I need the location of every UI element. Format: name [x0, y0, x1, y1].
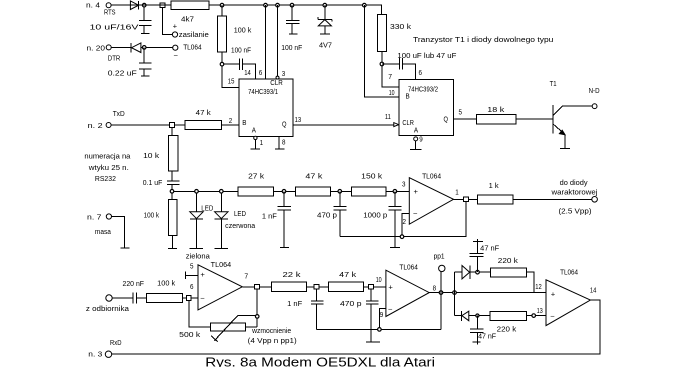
- svg-text:waraktorowej: waraktorowej: [550, 190, 598, 197]
- svg-text:5: 5: [190, 264, 194, 271]
- svg-text:TxD: TxD: [113, 111, 125, 118]
- wire input to cap: [112, 297, 133, 299]
- ground 1000p: [390, 247, 400, 249]
- svg-text:74HC393/1: 74HC393/1: [248, 89, 278, 96]
- svg-text:z odbiornika: z odbiornika: [86, 306, 129, 313]
- wire rail to chip2 pin 10: [364, 5, 399, 97]
- wire top supply rail: [112, 5, 382, 14]
- svg-text:0.22 uF: 0.22 uF: [108, 71, 137, 78]
- svg-text:Tranzystor T1 i diody dowolneg: Tranzystor T1 i diody dowolnego typu: [413, 37, 554, 44]
- svg-text:−: −: [550, 314, 555, 321]
- svg-text:2: 2: [403, 219, 407, 226]
- wire U3 output to U4 plus: [429, 292, 546, 294]
- svg-text:100 k: 100 k: [234, 28, 252, 35]
- svg-text:Q: Q: [444, 117, 449, 124]
- svg-text:numeracja na: numeracja na: [84, 154, 130, 161]
- svg-text:100 k: 100 k: [157, 280, 176, 287]
- junction at U4 minus: [532, 314, 536, 318]
- supply stub 47nF top: [473, 241, 483, 243]
- svg-text:TL064: TL064: [560, 270, 578, 277]
- IC U3 74HC393/2: [399, 79, 454, 135]
- wire U1 minus stub: [402, 213, 409, 236]
- resistor 47 k (demod): [328, 282, 363, 291]
- svg-text:+: +: [200, 272, 205, 279]
- svg-text:wtyku 25 n.: wtyku 25 n.: [88, 165, 129, 172]
- svg-text:A: A: [252, 128, 256, 135]
- svg-text:6: 6: [190, 284, 194, 291]
- diode D4 (bottom detector): [461, 311, 463, 321]
- ground 470p demod: [366, 341, 380, 343]
- pin 8 ground: [275, 136, 285, 149]
- capacitor 0.22 uF: [139, 47, 151, 75]
- op-amp U1 TL064: [409, 178, 453, 225]
- svg-text:do diody: do diody: [560, 180, 589, 187]
- svg-text:zasilanie: zasilanie: [179, 32, 209, 39]
- junction top detector node: [476, 270, 480, 274]
- diode D1 (RTS): [130, 1, 138, 10]
- ground LED czerwona: [215, 247, 228, 249]
- ground 1nF: [280, 247, 289, 249]
- junction pot wiper: [255, 315, 259, 319]
- svg-text:+: +: [414, 189, 419, 196]
- svg-text:22 k: 22 k: [283, 272, 302, 279]
- svg-text:1 k: 1 k: [489, 183, 500, 190]
- svg-text:2: 2: [229, 118, 233, 125]
- svg-text:CLR: CLR: [270, 80, 283, 87]
- LED zielona: [196, 191, 198, 212]
- svg-text:(4 Vpp n pp1): (4 Vpp n pp1): [248, 338, 297, 345]
- svg-text:−: −: [388, 307, 393, 314]
- junction after 27k: [282, 190, 286, 194]
- wire detector branch vertical: [454, 272, 456, 315]
- svg-text:DTR: DTR: [108, 56, 121, 63]
- capacitor 0.1 uF: [167, 171, 179, 192]
- svg-text:150 k: 150 k: [361, 173, 383, 180]
- resistor 18 k: [477, 115, 516, 124]
- wire Q pin5 to 18k: [453, 118, 552, 120]
- svg-text:3: 3: [282, 71, 286, 78]
- capacitor 100 nF (decoupling): [286, 5, 300, 34]
- resistor 330 k: [378, 15, 387, 52]
- svg-text:6: 6: [259, 70, 263, 77]
- node square junction after 22k: [314, 284, 319, 289]
- junction rail at 100k: [220, 3, 224, 7]
- resistor 100 k (to ground): [171, 191, 173, 199]
- resistor 150 k: [351, 187, 385, 196]
- ground stub 100nF: [289, 33, 298, 35]
- wire node to chip2 pin 7: [382, 64, 399, 87]
- svg-text:18 k: 18 k: [487, 107, 505, 114]
- svg-text:n. 7: n. 7: [87, 215, 102, 222]
- resistor 220 k (top): [490, 268, 526, 277]
- svg-text:+: +: [551, 291, 556, 298]
- svg-text:TL064: TL064: [183, 44, 202, 51]
- terminal n.3 RxD: [105, 351, 111, 357]
- wire U3 output feedback drop: [440, 293, 442, 330]
- junction bottom detector node: [476, 314, 479, 317]
- resistor 100 k (input): [146, 294, 182, 303]
- node square junction after 47k: [369, 284, 374, 289]
- junction node RTS: [142, 3, 146, 7]
- svg-text:100 k: 100 k: [144, 212, 160, 219]
- node square junction U2 output: [255, 284, 260, 289]
- svg-text:470 p: 470 p: [340, 301, 362, 308]
- svg-text:RxD: RxD: [110, 340, 122, 347]
- ground LED zielona: [190, 247, 204, 249]
- wire diode to 220k top: [470, 271, 490, 273]
- svg-text:masa: masa: [95, 229, 111, 236]
- wire U3 feedback: [317, 328, 442, 330]
- ground stub zener: [320, 33, 330, 35]
- wire U2 feedback loop: [189, 287, 257, 327]
- svg-text:74HC393/2: 74HC393/2: [408, 86, 438, 93]
- svg-text:−: −: [200, 296, 205, 303]
- resistor 10 k: [171, 127, 173, 135]
- svg-text:47 k: 47 k: [305, 173, 323, 180]
- junction U3 output: [439, 291, 443, 295]
- svg-text:5: 5: [459, 109, 463, 116]
- svg-text:TL064: TL064: [211, 262, 232, 269]
- wire to +zasilanie terminal: [163, 8, 173, 35]
- svg-text:7: 7: [244, 274, 248, 281]
- op-amp U3 TL064: [386, 270, 429, 316]
- svg-text:n. 2: n. 2: [88, 123, 103, 130]
- terminal do diody waraktorowej: [592, 197, 598, 203]
- svg-text:8: 8: [282, 140, 286, 147]
- wire 47k to U3 plus: [363, 286, 386, 288]
- wire 220k bottom to minus: [527, 315, 546, 317]
- wire cap to 100k: [137, 297, 147, 299]
- svg-text:100 nF: 100 nF: [231, 47, 251, 54]
- ground 100k divider: [168, 247, 177, 249]
- svg-text:czerwona: czerwona: [225, 223, 255, 230]
- svg-text:LED: LED: [201, 205, 213, 212]
- terminal N-D collector output: [592, 104, 597, 109]
- svg-text:500 k: 500 k: [179, 332, 201, 339]
- wire diode to 220k bottom: [469, 315, 490, 317]
- svg-text:470 p: 470 p: [317, 213, 337, 220]
- svg-text:100 nF: 100 nF: [281, 45, 302, 52]
- capacitor 220 nF: [133, 292, 137, 303]
- svg-text:220 k: 220 k: [497, 326, 517, 333]
- svg-text:15: 15: [228, 78, 235, 85]
- node n.20 DTR terminal: [111, 46, 131, 48]
- svg-text:zielona: zielona: [186, 254, 210, 261]
- svg-text:100 uF lub 47 uF: 100 uF lub 47 uF: [397, 53, 456, 60]
- resistor 100 k (oscillator): [221, 5, 223, 16]
- svg-text:n. 20: n. 20: [87, 46, 106, 53]
- wire 100k bottom to feedback node: [221, 52, 223, 64]
- op-amp U4 TL064: [546, 280, 590, 326]
- svg-text:Rys. 8a Modem OE5DXL dla Atari: Rys. 8a Modem OE5DXL dla Atari: [205, 355, 435, 367]
- svg-text:6: 6: [419, 70, 423, 77]
- wire feedback node to pin 15: [222, 64, 239, 87]
- wire 100k to minus input: [183, 297, 198, 299]
- wire RTS diode to node: [139, 4, 161, 6]
- capacitor 47 nF (bottom): [470, 316, 483, 345]
- svg-text:10 k: 10 k: [143, 153, 160, 160]
- potentiometer 500 k wzmocnienie: [211, 323, 246, 331]
- IC U2 74HC393/1: [239, 79, 293, 136]
- wire 1k to varactor terminal: [513, 198, 592, 200]
- terminal z odbiornika: [106, 295, 112, 301]
- ground masa: [120, 247, 129, 249]
- terminal n.7 masa: [106, 214, 111, 219]
- svg-text:10 uF/16V: 10 uF/16V: [90, 24, 139, 31]
- capacitor 470 p (demod): [366, 289, 378, 342]
- svg-text:10: 10: [376, 277, 382, 284]
- resistor 22 k: [272, 282, 307, 291]
- terminal pp1: [440, 272, 442, 293]
- wire 22k to 47k: [307, 286, 329, 288]
- svg-text:9: 9: [380, 312, 384, 319]
- node square junction U1 output: [464, 197, 469, 202]
- svg-text:47 k: 47 k: [196, 110, 212, 117]
- junction rail 100nF decoupling: [290, 3, 294, 7]
- svg-text:LED: LED: [234, 211, 246, 218]
- wire U1 output: [454, 198, 478, 200]
- wire U3 minus stub: [379, 308, 386, 329]
- resistor 220 k (bottom): [490, 311, 527, 320]
- pin 1 clock bubble and ground: [254, 136, 257, 139]
- junction detector split: [453, 291, 457, 295]
- capacitor 47 nF (top): [470, 239, 484, 272]
- svg-text:14: 14: [244, 70, 251, 77]
- junction rail pin3 wire: [276, 3, 280, 7]
- svg-text:RS232: RS232: [95, 176, 116, 183]
- svg-text:RTS: RTS: [104, 10, 116, 17]
- svg-text:47 k: 47 k: [339, 272, 357, 279]
- pin 9 clock bubble and ground: [414, 137, 418, 141]
- svg-text:T1: T1: [550, 81, 557, 88]
- terminal + zasilanie: [172, 32, 177, 37]
- svg-text:1 nF: 1 nF: [262, 213, 277, 220]
- svg-text:12: 12: [535, 284, 542, 291]
- wire 220k top to plus line: [527, 272, 534, 292]
- wire bottom branch: [455, 315, 462, 317]
- node n.4 RTS terminal: [114, 4, 130, 6]
- svg-text:47 nF: 47 nF: [478, 334, 496, 341]
- svg-text:11: 11: [385, 114, 391, 121]
- wire rail to chip1 CLR pin 3: [277, 5, 279, 76]
- resistor 1 k: [477, 195, 513, 204]
- svg-text:13: 13: [295, 117, 302, 124]
- wire Q pin13 to chip2 CLR pin11: [293, 124, 399, 126]
- resistor 4k7: [171, 1, 209, 10]
- junction feedback stub: [400, 235, 404, 239]
- svg-text:−: −: [173, 53, 178, 60]
- svg-text:220 nF: 220 nF: [123, 281, 145, 288]
- junction after 47k: [338, 190, 342, 194]
- capacitor 100 uF lub 47 uF: [382, 58, 416, 79]
- svg-text:Q: Q: [282, 122, 287, 129]
- junction rail pin6 wire: [264, 3, 268, 7]
- svg-text:+: +: [388, 285, 393, 292]
- junction rail zener: [323, 3, 327, 7]
- transistor Q1 T1: [552, 105, 554, 134]
- node square junction TxD: [170, 123, 175, 128]
- diode D2 (DTR): [130, 43, 132, 53]
- svg-text:−: −: [413, 211, 418, 218]
- op-amp U2 TL064: [198, 265, 242, 310]
- ground stub 10uF: [141, 33, 150, 35]
- svg-text:TL064: TL064: [399, 264, 418, 271]
- capacitor 1 nF: [278, 191, 291, 247]
- resistor 47 k (TxD): [185, 120, 222, 129]
- svg-text:pp1: pp1: [434, 254, 445, 261]
- svg-text:(2.5 Vpp): (2.5 Vpp): [559, 209, 592, 216]
- wire U4 output to RxD rail: [112, 300, 600, 354]
- wire U2 output: [242, 286, 271, 288]
- svg-text:14: 14: [590, 288, 597, 295]
- wire 330k bottom node: [381, 52, 383, 65]
- capacitor 1 nF (demod): [311, 289, 323, 329]
- svg-text:4V7: 4V7: [319, 42, 332, 49]
- svg-text:27 k: 27 k: [248, 173, 265, 180]
- emitter ground: [560, 135, 570, 149]
- wire U1 feedback: [340, 199, 466, 236]
- svg-text:9: 9: [419, 137, 423, 144]
- svg-text:1: 1: [455, 190, 459, 197]
- wire top branch: [455, 271, 463, 273]
- clock wedge at CLR pin 11: [394, 123, 399, 127]
- svg-text:4k7: 4k7: [181, 16, 194, 23]
- svg-text:n. 3: n. 3: [88, 351, 102, 358]
- capacitor 10 uF/16V: [139, 5, 151, 34]
- capacitor 1000 p: [388, 191, 401, 247]
- junction node DTR: [142, 46, 146, 50]
- wire TxD input row: [111, 124, 238, 126]
- svg-text:1 nF: 1 nF: [287, 301, 302, 308]
- svg-text:A: A: [414, 127, 418, 134]
- wire rail to chip1 pin 6: [265, 5, 267, 79]
- svg-text:B: B: [406, 94, 410, 101]
- resistor 27 k: [238, 187, 274, 196]
- svg-text:N-D: N-D: [589, 88, 600, 95]
- node square junction U2 minus: [186, 296, 191, 301]
- capacitor 470 p: [333, 191, 346, 236]
- svg-text:3: 3: [402, 182, 406, 189]
- wire divider node to filter: [172, 190, 238, 192]
- svg-text:330 k: 330 k: [390, 24, 412, 31]
- svg-text:n. 4: n. 4: [86, 3, 100, 10]
- zener diode 4V7: [318, 5, 332, 21]
- svg-text:+: +: [173, 24, 178, 31]
- svg-text:10: 10: [389, 90, 395, 97]
- capacitor 100 nF (feedback to pin 14): [222, 59, 255, 80]
- svg-text:13: 13: [537, 308, 543, 315]
- svg-text:1000 p: 1000 p: [363, 213, 387, 220]
- wire DTR node to TL064 supply terminal: [141, 46, 173, 48]
- svg-text:TL064: TL064: [422, 174, 441, 181]
- svg-text:7: 7: [388, 74, 392, 81]
- junction after 150k: [393, 190, 397, 194]
- svg-text:220 k: 220 k: [498, 258, 519, 265]
- LED czerwona: [220, 191, 222, 212]
- svg-text:47 nF: 47 nF: [480, 245, 499, 252]
- junction rail to chip2 pin10: [363, 3, 367, 7]
- svg-text:0.1 uF: 0.1 uF: [143, 180, 163, 187]
- supply stub 47nF bottom: [473, 341, 481, 343]
- wire U2 plus stub terminator: [186, 271, 198, 279]
- svg-text:wzmocnienie: wzmocnienie: [251, 328, 291, 335]
- svg-text:8: 8: [433, 285, 437, 292]
- diode D3 (top detector): [462, 266, 470, 279]
- svg-text:B: B: [242, 120, 246, 127]
- terminal TL064 negative supply: [173, 45, 178, 50]
- junction U3 feedback stub: [378, 328, 382, 332]
- ground stub 0.22uF: [141, 75, 150, 77]
- wire filter chain: [238, 190, 409, 192]
- svg-text:1: 1: [260, 140, 264, 147]
- svg-text:CLR: CLR: [402, 120, 414, 127]
- resistor 47 k (filter): [295, 187, 330, 196]
